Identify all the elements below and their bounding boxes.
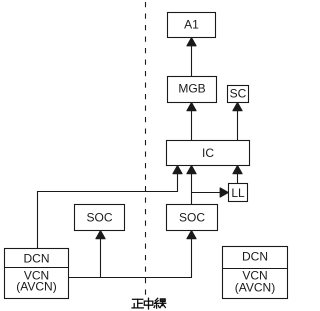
arrowhead into IC from SOC right: [187, 166, 196, 174]
divider DCN left: [5, 267, 69, 269]
wire SOC right to IC: [191, 171, 193, 205]
svg-text:SOC: SOC: [179, 211, 205, 225]
svg-text:IC: IC: [202, 146, 214, 160]
arrowhead into A1: [187, 38, 196, 46]
svg-text:DCN: DCN: [24, 252, 50, 266]
box SC: [228, 86, 249, 103]
svg-text:MGB: MGB: [178, 82, 205, 96]
wire bottom to SOC left: [100, 236, 102, 278]
arrowhead into IC from LL: [233, 166, 242, 174]
box LL: [229, 184, 248, 202]
svg-text:(AVCN): (AVCN): [235, 281, 275, 295]
box A1: [168, 13, 216, 38]
wire DCN left riser to IC: [38, 171, 178, 249]
svg-text:LL: LL: [231, 186, 245, 200]
svg-text:DCN: DCN: [242, 250, 268, 264]
box DCN/VCN left: [5, 249, 69, 299]
wire LL to IC: [237, 171, 239, 184]
wire IC to SC: [237, 108, 239, 141]
arrowhead into LL: [220, 188, 228, 197]
midline (dashed vertical): [145, 2, 147, 295]
box SOC left: [75, 205, 125, 231]
svg-text:(AVCN): (AVCN): [16, 280, 56, 294]
box DCN/VCN right: [223, 247, 288, 299]
arrowhead into SOC left: [96, 231, 105, 239]
svg-text:SOC: SOC: [86, 211, 112, 225]
wire MGB to A1: [191, 43, 193, 77]
label 正中線 glyph 正: [132, 299, 143, 308]
svg-text:SC: SC: [230, 87, 247, 101]
label 正中線 glyph 線: [154, 298, 166, 308]
wire IC to MGB: [191, 108, 193, 141]
box SOC right: [167, 205, 218, 231]
wire VCN left to SOC right: [69, 236, 192, 278]
arrowhead into MGB: [187, 103, 196, 111]
box IC: [167, 141, 250, 166]
arrowhead into IC from DCN riser: [173, 166, 182, 174]
wire branch to LL: [192, 192, 223, 194]
arrowhead into SC: [233, 103, 242, 111]
divider DCN right: [223, 268, 288, 270]
box MGB: [168, 77, 217, 103]
arrowhead into SOC right: [187, 231, 196, 239]
label 正中線 glyph 中: [144, 298, 153, 309]
svg-text:A1: A1: [184, 18, 199, 32]
